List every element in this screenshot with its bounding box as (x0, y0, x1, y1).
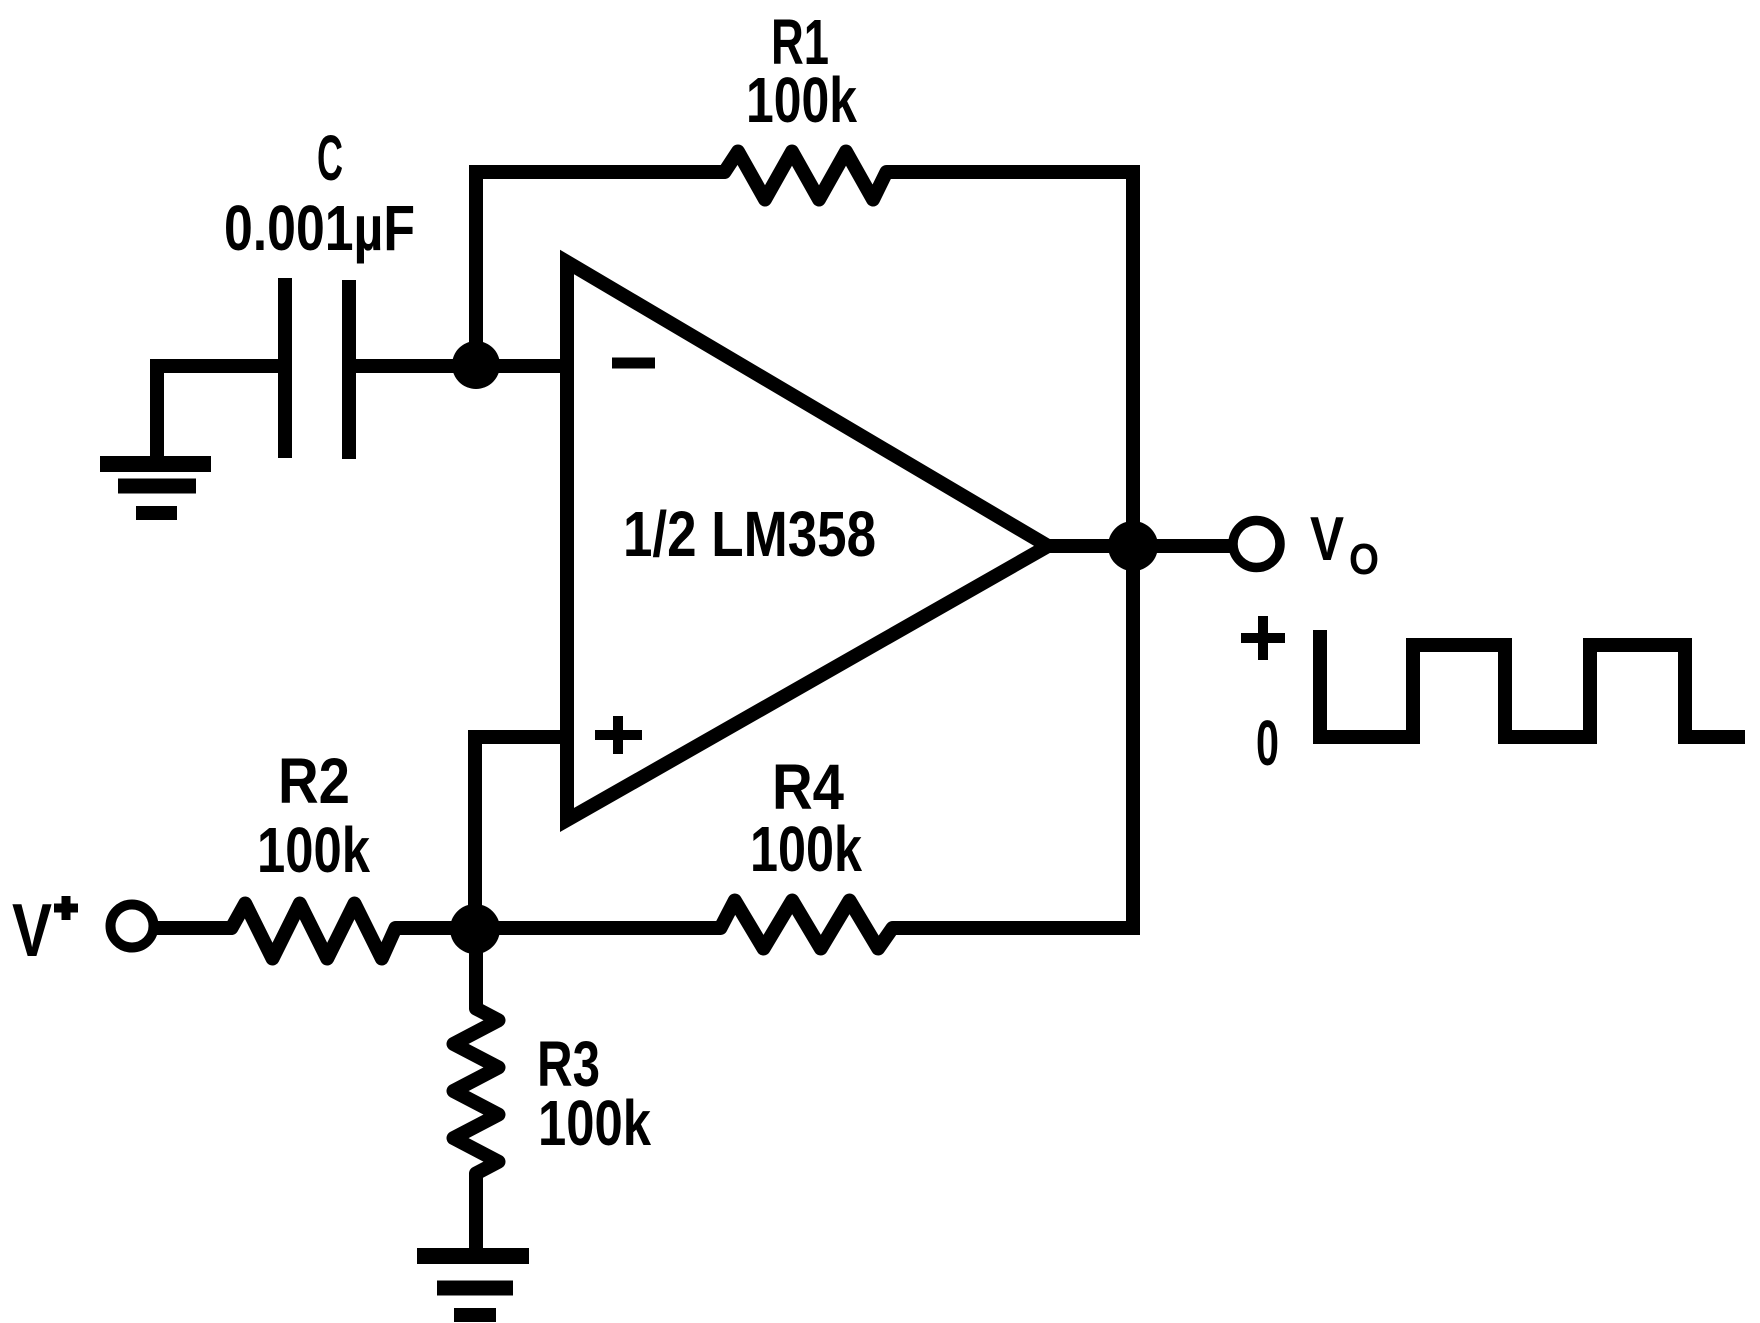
svg-text:0.001µF: 0.001µF (224, 192, 415, 264)
svg-text:100k: 100k (746, 64, 857, 136)
svg-text:100k: 100k (538, 1087, 651, 1159)
svg-text:R2: R2 (278, 745, 350, 817)
svg-text:V: V (12, 888, 52, 972)
svg-text:V: V (1310, 505, 1344, 574)
svg-text:100k: 100k (750, 813, 862, 885)
svg-text:O: O (1349, 535, 1379, 584)
svg-text:1/2 LM358: 1/2 LM358 (623, 498, 876, 570)
svg-text:100k: 100k (257, 814, 370, 886)
svg-text:C: C (317, 122, 343, 194)
svg-text:0: 0 (1256, 707, 1279, 779)
